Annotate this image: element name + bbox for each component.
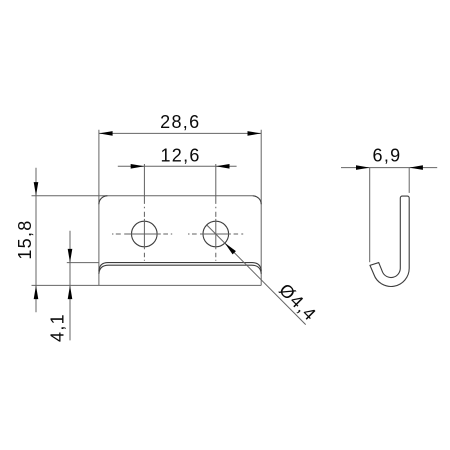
front view: upper bend tangent line xyxy=(99,263,261,272)
dimension 4,1 top arrow xyxy=(68,249,73,263)
hole 1 circle xyxy=(132,221,158,247)
svg-text:12,6: 12,6 xyxy=(160,146,200,166)
dimension 4,1 line xyxy=(69,231,71,341)
dimension 12,6 left arrow xyxy=(131,164,145,169)
svg-text:6,9: 6,9 xyxy=(373,146,402,166)
side view: left extension line / plate left surface xyxy=(369,168,371,263)
front view: plate left edge with extension line xyxy=(98,130,100,286)
side view: hook outline xyxy=(370,196,409,286)
dimension 12,6 right arrow xyxy=(216,164,230,169)
svg-text:4,1: 4,1 xyxy=(48,313,68,342)
dimension 4,1 bottom arrow xyxy=(68,285,73,299)
front view: lower bend tangent line xyxy=(99,265,261,274)
hole 1 vertical centerline / 12.6 extension xyxy=(143,164,145,261)
hole 2 circle xyxy=(203,221,229,247)
hole 1 horizontal centerline xyxy=(112,233,172,235)
front view: plate bottom edge with extension line xyxy=(32,284,262,286)
dimension 6,9 right arrow xyxy=(409,165,423,170)
svg-text:Ø4,4: Ø4,4 xyxy=(275,280,320,325)
dimension 15,8 top arrow xyxy=(34,182,39,196)
leader arrow at hole 2 xyxy=(225,243,236,255)
front view: plate right edge with extension line xyxy=(260,130,262,286)
front view: plate top edge with 15.8 extension line xyxy=(32,195,253,197)
dimension 6,9 line xyxy=(341,167,437,169)
svg-text:28,6: 28,6 xyxy=(160,112,200,132)
hole 2 horizontal centerline xyxy=(188,233,243,235)
side view: right extension line xyxy=(408,168,410,193)
dimension 12,6 line xyxy=(118,165,237,167)
dimension 28,6 right arrow xyxy=(248,131,262,136)
dimension 28,6 left arrow xyxy=(99,131,113,136)
dimension 4,1 extension line xyxy=(67,262,99,264)
dimension 6,9 left arrow xyxy=(356,165,370,170)
dimension 15,8 bottom arrow xyxy=(34,285,39,299)
leader line through hole 2 xyxy=(207,225,306,325)
svg-text:15,8: 15,8 xyxy=(15,219,35,259)
front view: top-right corner round xyxy=(253,196,262,205)
dimension 15,8 line xyxy=(35,168,37,313)
hole 2 vertical centerline / 12.6 extension xyxy=(215,164,217,261)
front view: top-left corner round xyxy=(99,196,108,205)
dimension 28,6 line xyxy=(99,132,261,134)
